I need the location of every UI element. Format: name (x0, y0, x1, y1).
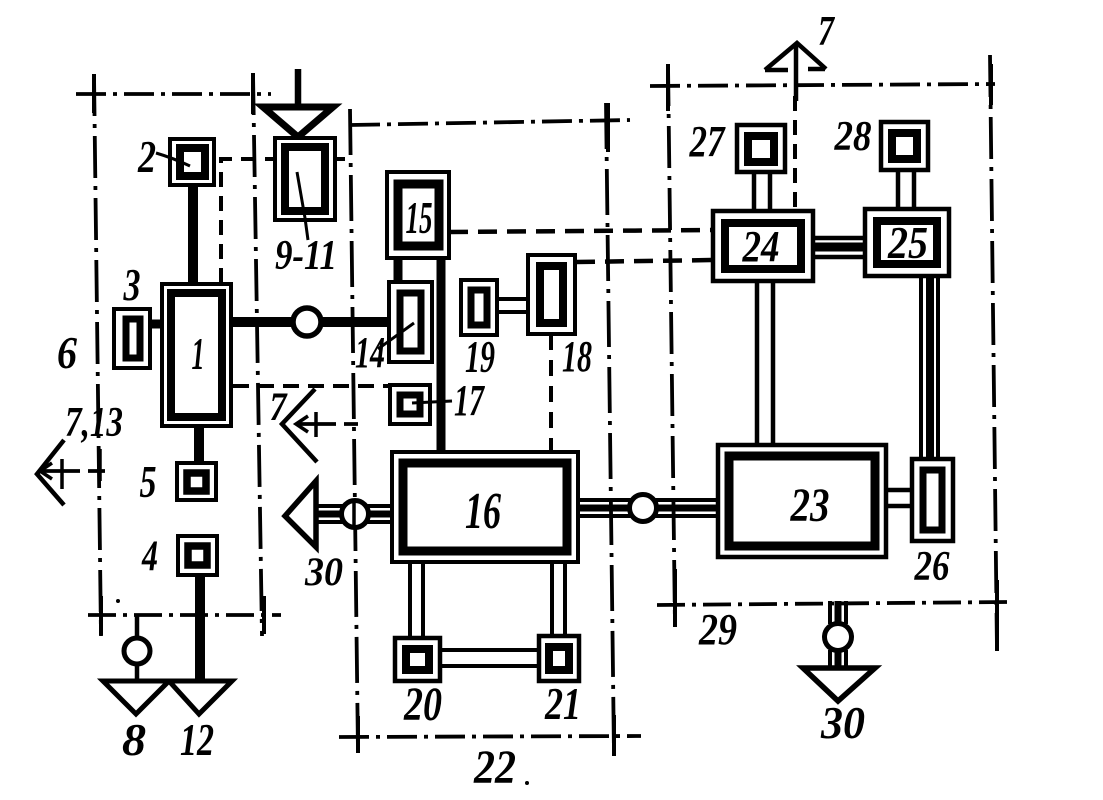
arrow 7,13 dash-dot line (38, 469, 105, 473)
arrow 7,13 small arrowhead (40, 463, 52, 479)
svg-text:3: 3 (123, 260, 141, 310)
pipe box16 to junction C thin bottom (577, 514, 631, 518)
pipe box25 to box26 thick middle (926, 275, 934, 460)
dashed control line from box1 top to box 9-11 (221, 159, 275, 283)
box 19 inner (471, 290, 487, 325)
box 28 inner (892, 133, 917, 159)
boundary region 6 right dash-dot line (253, 73, 262, 636)
boundary region 6 bottom dash-dot line (88, 613, 281, 617)
arrow 7 top right base bar left (765, 68, 788, 73)
junction C circle (630, 495, 657, 522)
tick cross region22 bottom-left (356, 716, 360, 753)
svg-text:27: 27 (689, 117, 726, 166)
box 2 outer (170, 139, 214, 185)
svg-text:15: 15 (406, 193, 433, 243)
junction A circle (293, 308, 321, 336)
box 20 inner (406, 649, 429, 670)
box 2 inner (180, 148, 205, 176)
dashed line from box15 right to box24 (449, 230, 714, 232)
tick cross region6 bottom-left (99, 596, 103, 635)
box 25 inner (877, 221, 937, 264)
arrow 7 top right base bar right (808, 67, 825, 72)
stray dot left (116, 599, 120, 603)
svg-text:25: 25 (887, 217, 928, 268)
wire double line box23 to box26 upper (884, 488, 913, 493)
pipe boundary29 to drain circle thin left (828, 601, 832, 624)
pipe junction B to box16 thin top (367, 504, 393, 508)
boundary region 22 left dash-dot line (350, 109, 358, 752)
boundary region 29 top dash-dot line (650, 84, 995, 86)
stray dot bottom middle (525, 781, 529, 785)
svg-text:4: 4 (141, 533, 158, 580)
wire double line box24 to box23 right (771, 280, 776, 447)
svg-text:7,13: 7,13 (65, 400, 123, 446)
drain triangle 30 bottom right (803, 668, 875, 701)
box 16 inner (403, 463, 567, 551)
svg-text:22: 22 (473, 741, 516, 794)
box 5 inner (187, 473, 206, 491)
svg-text:18: 18 (562, 332, 592, 381)
svg-text:8: 8 (122, 714, 146, 765)
svg-text:26: 26 (914, 544, 950, 590)
dashed line from box18 bottom to box16 top (549, 334, 553, 452)
pipe junction B to box16 thin bottom (367, 520, 393, 524)
pipe box16 to junction C thick middle (577, 505, 631, 512)
tick cross region29 top-left (666, 64, 670, 111)
pipe triangle30 to junction B thick middle (314, 511, 344, 518)
pipe drain circle to triangle30 thick middle (835, 650, 842, 668)
svg-text:1: 1 (192, 328, 205, 379)
wire double line box28 to box25 right (912, 169, 917, 210)
wire thick vertical box4 to triangle 12 (195, 574, 205, 682)
svg-text:30: 30 (820, 698, 865, 748)
wire double line box16 to box20 right (421, 561, 425, 639)
pipe box25 to box26 thin left (919, 275, 923, 460)
box 9-11 inner (285, 147, 325, 211)
box 15 inner (398, 184, 439, 246)
boundary region 22 top dash-dot line (350, 120, 630, 125)
wire double line box19 to box18 lower (496, 310, 530, 314)
dash-dot segment through junction B (352, 501, 356, 528)
box 25 outer (865, 209, 949, 276)
box 14 outer (389, 282, 432, 362)
wire thin vertical boundary to circle 8 (135, 616, 140, 637)
boundary region 29 right dash-dot line (990, 55, 997, 651)
funnel stem above box 9-11 (295, 69, 302, 104)
dashed line from arrow7 down to box24 top (793, 96, 797, 211)
svg-text:14: 14 (355, 328, 385, 377)
box 26 outer (912, 459, 953, 541)
leader line label 17 (412, 401, 452, 403)
box 14 inner (400, 293, 421, 351)
svg-text:6: 6 (57, 328, 77, 378)
box 20 outer (395, 638, 440, 681)
wire double line box20 to box21 lower (439, 664, 540, 668)
tick cross region29 bottom-left (673, 569, 677, 627)
arrow 7,13 left open triangle (37, 440, 64, 505)
box 21 inner (549, 647, 569, 670)
svg-text:12: 12 (180, 714, 214, 765)
box 4 inner (188, 546, 207, 565)
svg-text:21: 21 (544, 678, 581, 729)
wire thick vertical box1 to box5 (194, 427, 204, 464)
box 1 inner (171, 293, 222, 417)
tick cross region22 top-right (606, 103, 610, 152)
svg-text:20: 20 (403, 678, 442, 731)
drain circle right (825, 624, 852, 651)
box 18 inner (540, 266, 563, 323)
box 5 outer (177, 463, 216, 500)
box 16 outer (392, 452, 578, 562)
tick cross region6 top-left (92, 74, 96, 113)
dashed control stub right of box 9-11 (330, 157, 352, 161)
junction B circle (342, 501, 369, 528)
box 28 outer (881, 122, 928, 170)
wire thick vertical box2 to box1 (188, 183, 198, 285)
box 26 inner (923, 470, 942, 530)
svg-text:9-11: 9-11 (275, 233, 337, 279)
pipe triangle30 to junction B thin top (314, 504, 344, 508)
pipe box24 to box25 thin bottom (811, 255, 866, 260)
box 24 outer (713, 211, 813, 281)
pipe box24 to box25 thin top (811, 236, 866, 241)
box 18 outer (528, 255, 575, 334)
arrow 7 middle dash-dot line (296, 422, 358, 426)
leader line label 2 (156, 153, 190, 166)
tick cross region6 bottom-right (262, 596, 266, 634)
svg-text:5: 5 (140, 457, 157, 507)
wire double line box20 to box21 upper (439, 648, 540, 652)
svg-text:7: 7 (818, 9, 836, 55)
svg-text:2: 2 (137, 132, 156, 182)
wire double line box16 to box21 right (563, 561, 567, 637)
pipe drain circle to triangle30 thin right (844, 650, 848, 668)
tick cross region29 top-right (989, 64, 993, 105)
pipe junction C to box23 thin bottom (655, 514, 719, 518)
box 4 outer (178, 536, 217, 575)
pipe box25 to box26 thin right (936, 275, 940, 460)
wire double line box27 to box24 left (752, 171, 757, 212)
leader line label 14 (378, 323, 414, 349)
boundary region 22 right dash-dot line (606, 103, 614, 755)
pipe junction C to box23 thick middle (655, 505, 719, 512)
box 19 outer (461, 280, 497, 335)
box 27 outer (737, 125, 785, 172)
arrow 7,13 tick vertical (60, 459, 64, 489)
solid stem of arrow7 top right (794, 45, 799, 101)
dashed line from box18 right to box24 (576, 260, 714, 262)
arrow 7 top right open triangle (765, 43, 826, 70)
wire thick vertical box15 down to box16 (437, 257, 446, 453)
wire thick horizontal junction A to box14 (320, 317, 390, 327)
funnel triangle above box 9-11 (263, 107, 333, 137)
box 15 outer (387, 172, 449, 258)
svg-text:17: 17 (454, 376, 485, 425)
wire thick horizontal box3 to box1 (149, 320, 162, 329)
svg-text:16: 16 (465, 483, 501, 540)
box 27 inner (748, 136, 774, 162)
pipe boundary29 to drain circle thick middle (835, 601, 842, 624)
box 23 outer (718, 445, 886, 557)
suction triangle 30 left (285, 481, 316, 547)
wire double line box16 to box21 left (550, 561, 554, 637)
boundary region 6 left dash-dot line (94, 74, 101, 636)
wire double line box28 to box25 left (896, 169, 901, 210)
dashed line from box1 right to box17 (233, 384, 390, 388)
boundary region 22 bottom dash-dot line (339, 736, 641, 737)
wire thick vertical box15 to box14 (394, 257, 403, 284)
svg-text:30: 30 (304, 549, 343, 594)
box 24 inner (725, 223, 801, 269)
wire double line box19 to box18 upper (496, 297, 530, 301)
wire double line box16 to box20 left (408, 561, 412, 639)
leader line inside box 9-11 (297, 172, 308, 240)
svg-text:29: 29 (698, 605, 737, 654)
arrow 7 middle tick vertical (314, 412, 318, 437)
pipe boundary29 to drain circle thin right (844, 601, 848, 624)
pipe box16 to junction C thin top (577, 498, 631, 502)
wire double line box27 to box24 right (768, 171, 773, 212)
wire thin vertical circle to triangle 8 (135, 665, 140, 682)
wire thick horizontal box1 to junction A (231, 317, 295, 327)
tick cross region6 top-right (251, 73, 255, 114)
wire double line box24 to box23 left (755, 280, 760, 447)
circle above triangle 8 (124, 638, 150, 664)
pipe drain circle to triangle30 thin left (828, 650, 832, 668)
boundary region 29 left dash-dot line (668, 64, 675, 627)
pipe box24 to box25 thick middle (811, 243, 866, 252)
box 1 outer (162, 284, 231, 426)
pipe junction B to box16 thick middle (367, 511, 393, 518)
svg-text:19: 19 (465, 332, 495, 382)
svg-text:24: 24 (742, 222, 780, 271)
box 17 outer (390, 385, 430, 424)
wire double line box23 to box26 lower (884, 504, 913, 509)
boundary region 6 top dash-dot line (76, 92, 271, 96)
svg-text:7: 7 (270, 384, 289, 429)
box 9-11 outer (275, 138, 335, 220)
boundary region 29 bottom dash-dot line (657, 602, 1010, 605)
arrow 7 middle open triangle (282, 389, 317, 462)
box 17 inner (400, 395, 420, 414)
tick cross region29 bottom-right (995, 580, 999, 651)
box 3 inner (126, 319, 140, 358)
drain triangle 12 (169, 681, 232, 714)
svg-text:28: 28 (834, 114, 872, 160)
arrow 7 middle small arrowhead (296, 416, 308, 432)
pipe junction C to box23 thin top (655, 498, 719, 502)
svg-text:23: 23 (790, 479, 830, 532)
pipe triangle30 to junction B thin bottom (314, 520, 344, 524)
tick cross at boundary6 left arrow (98, 449, 102, 481)
tick cross region22 bottom-right (612, 715, 616, 756)
box 23 inner (729, 456, 875, 546)
box 3 outer (114, 309, 150, 368)
drain triangle 8 (103, 681, 169, 714)
box 21 outer (539, 636, 579, 681)
